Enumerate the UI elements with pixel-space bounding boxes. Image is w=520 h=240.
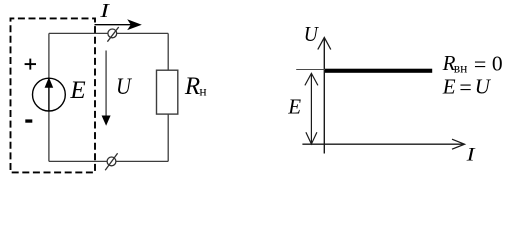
wire top — [49, 32, 168, 34]
source E emf arrow — [48, 86, 50, 111]
svg-text:U: U — [304, 23, 319, 46]
svg-text:I: I — [465, 144, 475, 165]
wire right lower — [167, 114, 169, 161]
svg-text:E: E — [287, 95, 301, 119]
resistor Rn — [157, 70, 178, 114]
tick at E level — [296, 69, 325, 71]
svg-text:н: н — [199, 84, 206, 99]
dimension arrow E — [310, 74, 312, 144]
svg-text:I: I — [99, 0, 110, 22]
svg-text:E: E — [442, 75, 456, 99]
source E circle — [33, 78, 66, 111]
U axis — [323, 38, 325, 154]
V-I characteristic line — [325, 69, 432, 73]
svg-text:0: 0 — [492, 51, 503, 75]
svg-text:вн: вн — [454, 60, 468, 75]
wire bottom — [49, 160, 168, 162]
svg-text:E: E — [69, 77, 85, 104]
plus polarity mark — [25, 63, 36, 65]
svg-text:=: = — [459, 75, 471, 100]
current arrow I — [95, 24, 132, 26]
svg-text:R: R — [184, 73, 200, 100]
svg-text:U: U — [475, 75, 492, 99]
I axis — [302, 143, 463, 145]
dashed box (real source boundary) — [11, 18, 96, 172]
svg-text:U: U — [116, 74, 132, 99]
terminal bottom — [107, 157, 116, 166]
terminal top — [108, 29, 117, 38]
wire left branch — [48, 33, 50, 161]
voltage arrow U — [105, 51, 107, 117]
minus polarity mark — [25, 119, 32, 122]
wire right upper — [167, 33, 169, 70]
svg-text:=: = — [474, 52, 486, 77]
